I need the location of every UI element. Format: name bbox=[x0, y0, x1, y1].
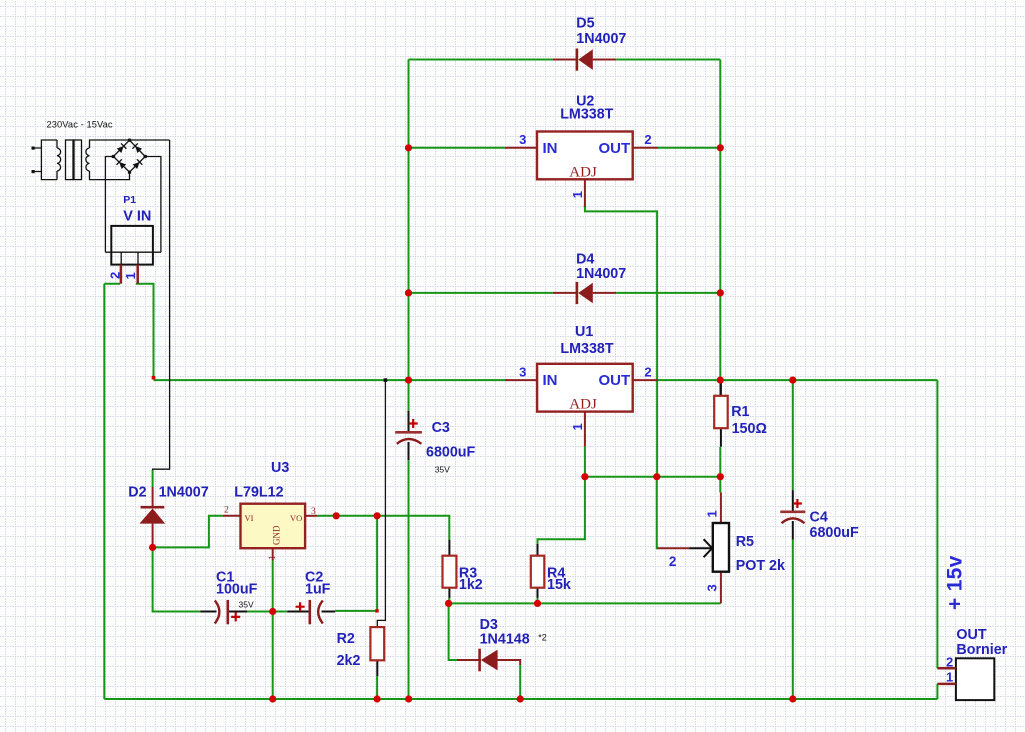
svg-text:1N4007: 1N4007 bbox=[576, 31, 626, 47]
svg-text:IN: IN bbox=[543, 372, 558, 389]
wire ADJ rail y=476.7 bbox=[585, 476, 720, 478]
C3 plus sign bbox=[409, 419, 418, 428]
svg-text:1: 1 bbox=[946, 670, 953, 685]
junction node U2-IN rail / left rail bbox=[405, 144, 412, 151]
svg-text:ADJ: ADJ bbox=[569, 397, 597, 413]
junction node D2 anode bbox=[149, 544, 156, 551]
U3 pin 2 VI lead bbox=[223, 515, 241, 517]
svg-text:1N4007: 1N4007 bbox=[576, 266, 626, 282]
svg-text:1: 1 bbox=[123, 272, 138, 279]
svg-text:3: 3 bbox=[705, 584, 720, 591]
resistor R4 bbox=[531, 544, 571, 598]
bridge diode bottom-left bbox=[117, 159, 127, 169]
C2 lead left bbox=[287, 611, 310, 613]
junction node GND rail / U3-GND bbox=[269, 695, 276, 702]
C2 lead right bbox=[322, 611, 336, 613]
R5 pin 1 lead bbox=[720, 492, 722, 523]
C4 plus sign bbox=[793, 499, 802, 508]
wire D2 to U3 VI bbox=[153, 516, 223, 548]
wire C1-C2 row y=611.5 bbox=[153, 547, 288, 611]
resistor R3 bbox=[443, 540, 483, 598]
U1 body bbox=[537, 364, 633, 412]
svg-text:D5: D5 bbox=[576, 16, 594, 32]
svg-text:+ 15v: + 15v bbox=[944, 555, 967, 610]
R5 pin 3 lead bbox=[720, 572, 722, 604]
D5 cathode lead bbox=[593, 59, 616, 61]
capacitor C4 bbox=[780, 490, 859, 541]
transformer TR1 bbox=[33, 140, 170, 180]
wire U2 pin rail y=147.8 bbox=[409, 147, 721, 149]
U3 pin 3 VO lead bbox=[305, 515, 317, 517]
C3 negative plate arc bbox=[397, 439, 422, 444]
P1 pin 2 lead bbox=[120, 265, 123, 284]
svg-text:P1: P1 bbox=[123, 194, 136, 206]
junction node ADJ rail / R5 wiper bbox=[653, 473, 660, 480]
node sense terminal square bbox=[384, 378, 388, 382]
U3 pin 1 GND lead bbox=[272, 548, 274, 560]
junction node U2-OUT rail / right rail bbox=[717, 144, 724, 151]
svg-text:3: 3 bbox=[519, 132, 526, 147]
wire left rail x=104.3 bbox=[103, 284, 105, 699]
C1 negative plate arc bbox=[215, 601, 220, 624]
bridge diode top-right bbox=[132, 143, 142, 153]
svg-text:6800uF: 6800uF bbox=[426, 445, 476, 461]
D4 cathode bar bbox=[576, 282, 579, 304]
wire U1 ADJ lead lower bbox=[584, 447, 586, 477]
wire R4 branch bbox=[538, 477, 585, 604]
diode D4 bbox=[553, 251, 626, 304]
diode D3 bbox=[457, 617, 547, 671]
svg-text:1N4148: 1N4148 bbox=[480, 631, 530, 647]
svg-text:OUT: OUT bbox=[599, 372, 631, 389]
svg-text:2: 2 bbox=[946, 655, 953, 670]
C1 lead right bbox=[228, 611, 248, 613]
OUT body bbox=[956, 658, 994, 700]
svg-text:U3: U3 bbox=[271, 460, 289, 476]
regulator U2 LM338T bbox=[505, 94, 658, 207]
R2 body bbox=[370, 627, 384, 660]
wire U2 ADJ to node x=657 bbox=[585, 205, 657, 477]
svg-text:1N4007: 1N4007 bbox=[159, 485, 209, 501]
junction node D4 cathode / right rail bbox=[717, 289, 724, 296]
wire secondary top to D2 x=169.6 bbox=[153, 140, 170, 470]
junction node U1-OUT / R1 top bbox=[717, 377, 724, 384]
svg-text:D4: D4 bbox=[576, 251, 594, 267]
svg-text:2: 2 bbox=[669, 554, 677, 569]
svg-text:R2: R2 bbox=[337, 631, 355, 647]
R2 lead bottom bbox=[376, 660, 378, 676]
wire left vertical rail x=408.5 bbox=[408, 60, 410, 700]
resistor R2 bbox=[337, 627, 385, 676]
svg-text:VO: VO bbox=[290, 513, 302, 523]
C4 negative plate arc bbox=[782, 518, 805, 523]
svg-text:1: 1 bbox=[570, 423, 585, 430]
svg-text:*2: *2 bbox=[538, 633, 547, 643]
wire bridge left vertex to P1 bbox=[105, 157, 113, 253]
node tick R2 corner bbox=[375, 609, 378, 612]
C1 positive plate bbox=[227, 600, 230, 624]
R5 wiper arrow shaft bbox=[689, 547, 711, 549]
wire D2 top stub bbox=[152, 470, 154, 487]
wire bridge right vertex to P1 bbox=[145, 157, 161, 253]
wire D3 branch bbox=[449, 603, 521, 699]
svg-text:U1: U1 bbox=[575, 324, 593, 340]
junction node D4 anode / left rail bbox=[405, 289, 412, 296]
transformer terminal 1 bbox=[32, 147, 35, 150]
bridge rectifier B1 bbox=[113, 140, 145, 172]
R1 lead bottom bbox=[720, 428, 722, 447]
U2 pin 3 IN lead bbox=[505, 147, 537, 149]
bridge diode top-left bbox=[116, 143, 126, 153]
svg-text:OUT: OUT bbox=[599, 140, 631, 157]
svg-text:1uF: 1uF bbox=[305, 582, 331, 598]
P1 pin slots bbox=[105, 252, 160, 264]
R1 lead top bbox=[720, 380, 722, 396]
svg-text:1k2: 1k2 bbox=[459, 577, 483, 593]
U1 pin 2 OUT lead bbox=[633, 379, 658, 381]
D5 anode lead bbox=[553, 59, 578, 61]
transformer secondary coil arcs bbox=[86, 148, 90, 171]
svg-text:R1: R1 bbox=[731, 404, 749, 420]
D2 anode lead bottom bbox=[152, 524, 154, 548]
svg-text:VI: VI bbox=[245, 513, 254, 523]
svg-text:100uF: 100uF bbox=[216, 582, 258, 598]
capacitor C2 bbox=[287, 570, 335, 625]
junction node main rail / left rail bbox=[405, 377, 412, 384]
transformer secondary outline bbox=[90, 140, 170, 180]
junction node GND rail / C3 bbox=[405, 695, 412, 702]
svg-text:1: 1 bbox=[268, 555, 278, 560]
D3 triangle bbox=[481, 650, 498, 671]
junction node C4 top bbox=[789, 377, 796, 384]
wire R5 pin3 to rail bbox=[720, 602, 722, 604]
junction node C1/C2 junction bbox=[269, 608, 276, 615]
D2 cathode bar bbox=[141, 506, 165, 509]
D4 anode lead bbox=[553, 292, 578, 294]
wire bottom rail y=699 bbox=[104, 698, 937, 700]
C3 lead bottom bbox=[408, 442, 410, 460]
C3 positive plate bbox=[395, 431, 422, 434]
D4 triangle bbox=[578, 283, 593, 304]
regulator U3 L79L12 bbox=[223, 460, 318, 561]
svg-text:GND: GND bbox=[272, 525, 282, 545]
potentiometer R5 bbox=[658, 492, 786, 603]
connector P1 bbox=[105, 194, 160, 284]
svg-text:Bornier: Bornier bbox=[956, 642, 1007, 658]
junction node U3-VO wire / R2 branch bbox=[374, 512, 381, 519]
U2 body bbox=[537, 132, 633, 180]
junction node GND rail / R2 bbox=[374, 695, 381, 702]
bridge diode bottom-right bbox=[132, 159, 142, 169]
svg-text:OUT: OUT bbox=[956, 627, 986, 643]
wire D4 rail y=292.9 bbox=[409, 292, 721, 294]
R1 body bbox=[714, 396, 728, 428]
D3 cathode bar bbox=[478, 649, 481, 672]
R3 body bbox=[443, 556, 457, 588]
svg-text:15k: 15k bbox=[547, 577, 571, 593]
R5 pin 2 wiper lead bbox=[658, 547, 690, 549]
svg-text:230Vac - 15Vac: 230Vac - 15Vac bbox=[47, 120, 113, 130]
C2 negative plate arc bbox=[318, 601, 323, 624]
wire +15v rail x=937.4 bbox=[936, 380, 938, 699]
R5 wiper arrowhead bbox=[704, 539, 713, 557]
diode D5 bbox=[553, 16, 627, 71]
C1 lead left bbox=[201, 611, 217, 613]
svg-text:1: 1 bbox=[705, 510, 720, 517]
svg-text:2: 2 bbox=[644, 132, 651, 147]
R4 lead bottom bbox=[537, 588, 539, 598]
U3 body bbox=[241, 504, 306, 549]
junction node GND rail / C4 bbox=[789, 695, 796, 702]
svg-text:35V: 35V bbox=[239, 600, 254, 610]
svg-text:R5: R5 bbox=[736, 534, 754, 550]
capacitor C1 bbox=[201, 570, 258, 625]
OUT pin 2 lead bbox=[937, 667, 956, 670]
bridge vertex squares bbox=[112, 139, 147, 174]
svg-text:C3: C3 bbox=[432, 420, 450, 436]
svg-text:L79L12: L79L12 bbox=[234, 485, 283, 501]
D3 cathode lead bbox=[498, 660, 521, 665]
C2 positive plate bbox=[308, 600, 311, 624]
junction node R4 bottom bbox=[534, 600, 541, 607]
R5 body bbox=[713, 523, 729, 572]
C4 lead bottom bbox=[792, 521, 794, 540]
R4 lead top bbox=[537, 544, 539, 556]
C2 plus sign bbox=[296, 602, 305, 611]
wire R2 bottom bbox=[376, 676, 378, 699]
U1 pin 1 ADJ lead bbox=[584, 412, 586, 447]
svg-text:35V: 35V bbox=[435, 465, 450, 475]
D4 cathode lead bbox=[593, 292, 616, 294]
U2 pin 2 OUT lead bbox=[633, 147, 658, 149]
junction node U3-VO wire a bbox=[333, 512, 340, 519]
C4 positive plate bbox=[780, 510, 805, 513]
U1 pin 3 IN lead bbox=[505, 379, 537, 381]
D3 anode lead bbox=[457, 659, 481, 661]
D5 cathode bar bbox=[576, 49, 579, 71]
transformer primary outline bbox=[33, 140, 57, 180]
wire R2 branch vertical x=377.1 bbox=[335, 516, 377, 611]
C4 lead top bbox=[792, 490, 794, 510]
svg-text:2: 2 bbox=[108, 272, 123, 279]
junction node U1-ADJ bbox=[581, 473, 588, 480]
wire C4 branch x=792.8 bbox=[792, 380, 794, 699]
bridge diamond bbox=[113, 140, 145, 172]
wire R5 wiper branch bbox=[657, 477, 658, 549]
wire P1 pin stubs bbox=[104, 284, 153, 378]
OUT pin 1 lead bbox=[937, 683, 956, 686]
transformer terminal 2 bbox=[32, 170, 35, 173]
svg-text:2k2: 2k2 bbox=[337, 653, 361, 669]
wire right vertical rail x=720.3 bbox=[719, 60, 721, 493]
U2 pin 1 ADJ lead bbox=[584, 179, 586, 207]
transformer core bbox=[66, 140, 74, 180]
svg-text:V IN: V IN bbox=[123, 209, 151, 225]
svg-text:150Ω: 150Ω bbox=[732, 421, 767, 437]
regulator U1 LM338T bbox=[505, 324, 658, 447]
resistor R1 bbox=[714, 380, 767, 447]
svg-text:2: 2 bbox=[644, 365, 651, 380]
WIRES-BLACK THIN bbox=[105, 140, 385, 627]
wire sense line x=385.4 bbox=[377, 380, 385, 627]
D5 triangle bbox=[578, 49, 593, 70]
junction node R1 bottom / R5 pin1 bbox=[717, 473, 724, 480]
node tick P1 rail bbox=[152, 376, 156, 380]
wire U3 GND vertical x=272.7 bbox=[272, 561, 274, 700]
junction node R3 bottom bbox=[445, 600, 452, 607]
svg-text:IN: IN bbox=[543, 140, 558, 157]
capacitor C3 bbox=[395, 411, 475, 475]
WIRES-GREEN bbox=[104, 60, 937, 700]
P1 pin 1 lead bbox=[136, 265, 139, 284]
R4 body bbox=[531, 556, 545, 588]
svg-text:1: 1 bbox=[570, 191, 585, 198]
P1 body outline bbox=[111, 226, 153, 265]
wire R3-R4 bottom rail y=603.4 bbox=[449, 602, 721, 604]
svg-text:C4: C4 bbox=[810, 510, 828, 526]
svg-text:3: 3 bbox=[311, 507, 316, 517]
svg-text:ADJ: ADJ bbox=[569, 164, 597, 180]
R3 lead top bbox=[448, 540, 450, 556]
R3 lead bottom bbox=[448, 588, 450, 598]
transformer primary coil arcs bbox=[57, 148, 61, 171]
svg-text:D2: D2 bbox=[128, 485, 146, 501]
svg-text:3: 3 bbox=[519, 365, 526, 380]
wire top rail y=59.5 (D5 net) bbox=[409, 59, 721, 61]
svg-text:LM338T: LM338T bbox=[560, 341, 613, 357]
svg-text:6800uF: 6800uF bbox=[810, 525, 860, 541]
C3 lead top bbox=[408, 411, 410, 431]
D2 cathode lead top bbox=[152, 487, 154, 509]
svg-text:POT 2k: POT 2k bbox=[736, 558, 785, 574]
connector OUT Bornier bbox=[937, 627, 1007, 700]
wire main rail y=380.1 bbox=[154, 379, 938, 381]
wire U3 VO to R3 bbox=[317, 516, 449, 604]
diode D2 bbox=[128, 485, 208, 548]
svg-text:LM338T: LM338T bbox=[560, 107, 613, 123]
svg-text:2: 2 bbox=[224, 506, 229, 516]
C1 plus sign bbox=[231, 612, 240, 621]
D2 triangle bbox=[139, 509, 165, 524]
junction node GND rail / D3 bbox=[517, 695, 524, 702]
